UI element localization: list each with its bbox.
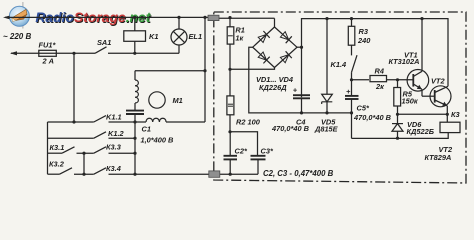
svg-text:Д815Е: Д815Е <box>314 124 339 133</box>
svg-text:R4: R4 <box>375 66 384 75</box>
node: fuse junction <box>72 52 75 55</box>
svg-text:240: 240 <box>357 36 371 45</box>
diode VD bridge bottom-left <box>258 52 266 60</box>
switch SA1 <box>95 38 111 53</box>
inductor: motor winding vertical <box>135 71 138 111</box>
wire: junction down to K1.1 row <box>73 53 75 122</box>
terminal: bottom feedthrough <box>209 171 220 177</box>
resistor R4 <box>352 66 414 91</box>
transistor VT2 <box>425 76 453 161</box>
wire: bottom rail to control box <box>109 173 259 176</box>
svg-text:SA1: SA1 <box>97 38 111 47</box>
relay coil K3 <box>440 110 461 132</box>
svg-text:C5*: C5* <box>357 103 370 112</box>
svg-text:1к: 1к <box>235 34 244 43</box>
svg-text:K1.2: K1.2 <box>108 129 125 138</box>
lamp EL1 <box>171 16 202 54</box>
capacitor C2 <box>224 132 248 174</box>
svg-text:+: + <box>293 86 298 95</box>
wire: mains top rail <box>3 16 275 20</box>
switch contact K3.4 <box>94 164 121 174</box>
svg-text:К3.2: К3.2 <box>49 160 65 169</box>
wire: right edge vertical of mains section <box>203 16 206 122</box>
svg-text:2 А: 2 А <box>42 56 55 65</box>
resistor R2 <box>227 69 261 132</box>
wire: bottom dc common <box>352 133 449 139</box>
wire: junction to bridge bottom vertex <box>230 68 275 70</box>
svg-text:K1.4: K1.4 <box>331 60 347 69</box>
node: R1/R2 junction <box>228 68 231 71</box>
wire: rail corner into bridge top <box>274 18 276 27</box>
wire: left column of contact block <box>47 122 49 174</box>
svg-text:К3.3: К3.3 <box>106 142 122 151</box>
switch contact K3.3 <box>94 142 137 154</box>
wire: SA1 to lamp branch <box>108 52 179 54</box>
transistor VT1 <box>389 19 435 97</box>
svg-text:470,0*40 В: 470,0*40 В <box>353 113 392 122</box>
svg-text:VT2: VT2 <box>431 76 445 85</box>
switch contact K3.2 <box>48 160 94 176</box>
svg-text:FU1*: FU1* <box>39 40 57 49</box>
svg-text:КТ3102А: КТ3102А <box>389 57 420 66</box>
wire: C1 column down through rows <box>134 122 136 174</box>
switch contact K3.1 <box>48 143 94 155</box>
inductor: motor winding horizontal <box>146 118 205 122</box>
dashed control unit border <box>214 12 466 183</box>
capacitor C1 <box>126 111 174 145</box>
motor M1 <box>149 92 183 108</box>
svg-text:K1.1: K1.1 <box>106 112 122 121</box>
svg-text:К3.4: К3.4 <box>106 164 121 173</box>
svg-text:КД522Б: КД522Б <box>407 127 434 136</box>
diode bridge VD1-VD4 <box>253 27 297 92</box>
resistor R3 <box>348 19 371 56</box>
svg-text:C3*: C3* <box>261 147 274 156</box>
terminal: top feedthrough <box>208 15 219 20</box>
svg-text:К3.1: К3.1 <box>50 143 65 152</box>
svg-text:1,0*400 В: 1,0*400 В <box>141 135 175 144</box>
wire: motor branch horizontal <box>135 70 205 72</box>
node: R2 bottom <box>228 130 231 133</box>
diode VD bridge bottom-right <box>280 55 288 63</box>
svg-text:EL1: EL1 <box>189 32 203 41</box>
svg-text:КД226Д: КД226Д <box>259 83 287 92</box>
svg-text:C2*: C2* <box>235 147 248 156</box>
diode VD bridge top-right <box>280 32 288 40</box>
svg-text:R3: R3 <box>359 27 369 36</box>
diode VD6 <box>392 114 434 139</box>
capacitor C3 <box>251 147 274 175</box>
svg-text:K1: K1 <box>149 32 158 41</box>
zener VD5 <box>314 19 339 134</box>
svg-text:К3: К3 <box>451 110 461 119</box>
wire: bridge minus output <box>249 47 353 114</box>
logo watermark RadioStorage.net <box>9 2 152 29</box>
svg-text:150к: 150к <box>402 97 419 106</box>
svg-text:M1: M1 <box>173 96 183 105</box>
svg-text:2к: 2к <box>375 82 385 91</box>
resistor R1 <box>227 16 245 69</box>
capacitor C5 polarized <box>345 80 392 139</box>
relay coil K1 <box>124 16 159 55</box>
fuse FU1 <box>39 40 57 65</box>
wire: bridge plus output to top rail <box>297 17 448 97</box>
wire: mains lower feed with left arrow <box>10 51 95 55</box>
svg-text:R2 100: R2 100 <box>236 117 261 126</box>
wire: R2 bottom to C3 top <box>230 132 258 156</box>
switch contact K1.4 <box>331 55 358 81</box>
wire: emitter node to relay K3 <box>396 113 449 122</box>
svg-text:470,0*40 В: 470,0*40 В <box>271 124 310 133</box>
wire: K3 rows link column <box>83 153 85 174</box>
svg-text:C1: C1 <box>142 124 151 133</box>
diode VD bridge top-left <box>258 34 266 42</box>
svg-text:~ 220 В: ~ 220 В <box>3 32 31 41</box>
switch contact K1.1 row <box>48 112 147 123</box>
switch contact K1.2 row <box>48 129 137 140</box>
svg-text:+: + <box>346 87 351 96</box>
svg-text:C2, C3 - 0,47*400 В: C2, C3 - 0,47*400 В <box>263 169 334 178</box>
svg-text:КТ829А: КТ829А <box>425 153 452 162</box>
resistor R5 <box>394 78 419 114</box>
capacitor C4 polarized <box>271 86 310 134</box>
